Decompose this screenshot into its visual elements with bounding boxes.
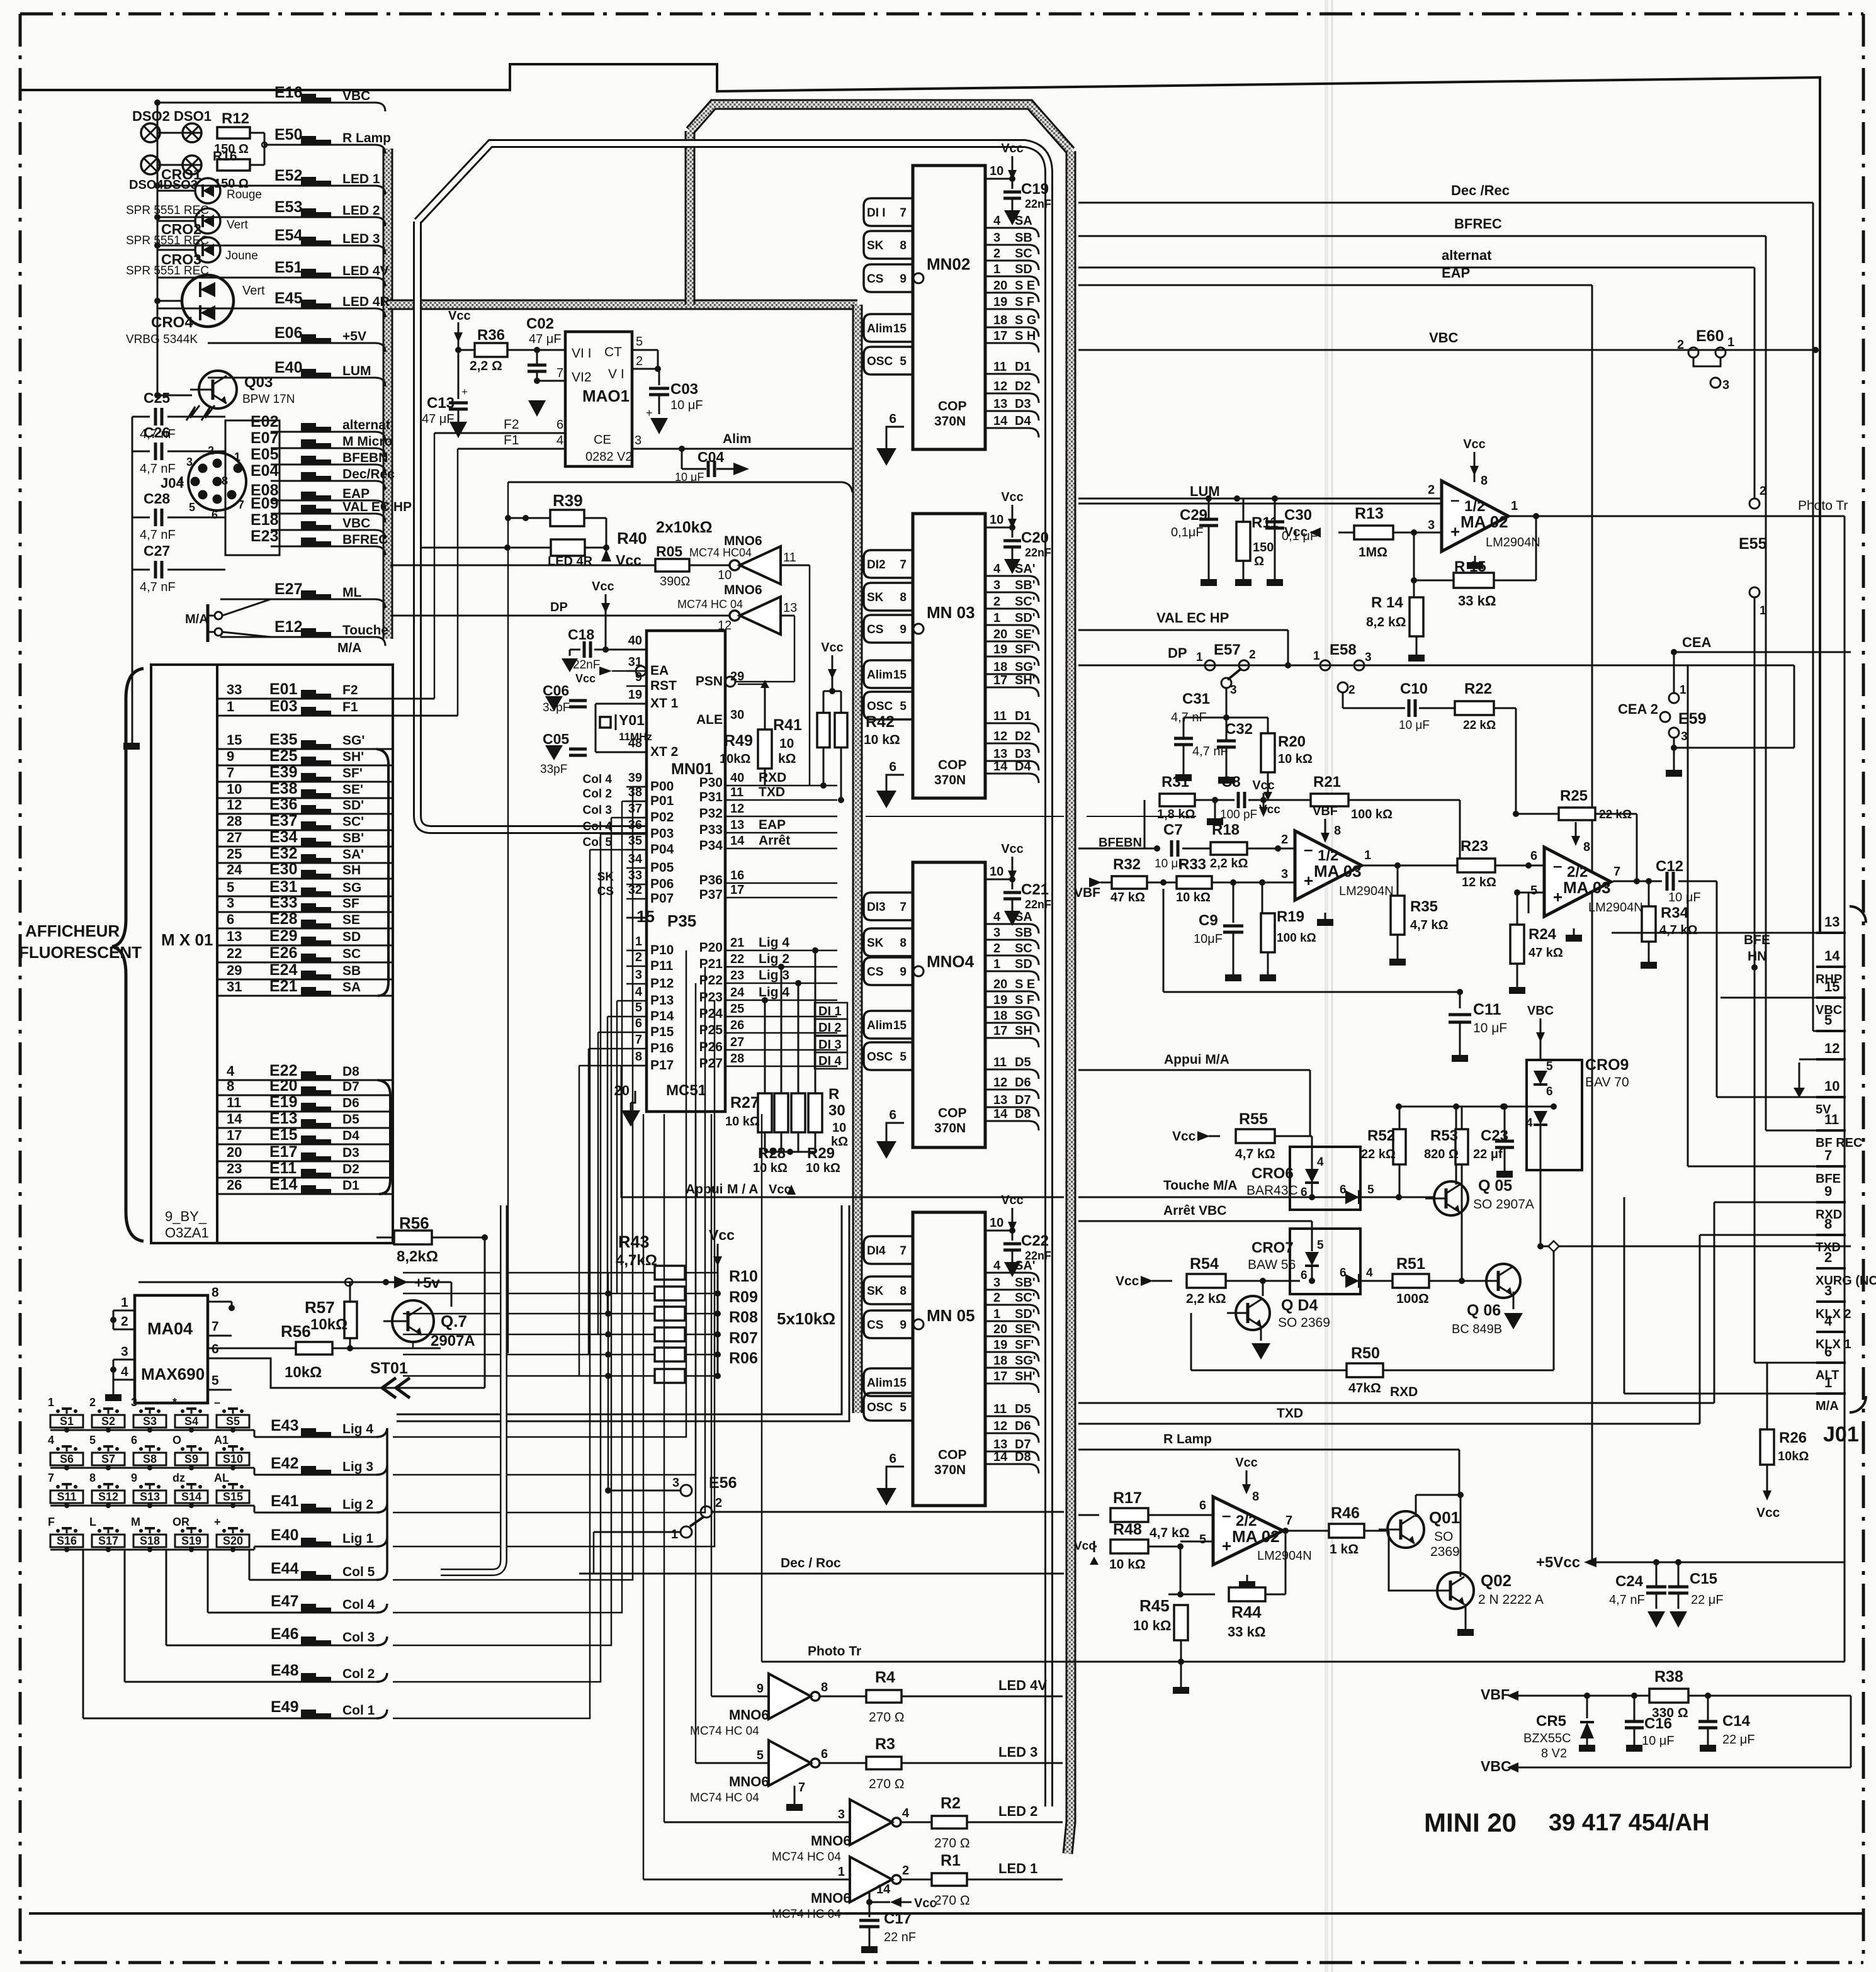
svg-text:12: 12 — [227, 797, 242, 813]
svg-text:SE: SE — [342, 913, 360, 927]
svg-text:Dec/Rec: Dec/Rec — [342, 467, 395, 482]
svg-text:CRO6: CRO6 — [1252, 1165, 1294, 1182]
svg-text:R49: R49 — [724, 732, 753, 750]
svg-text:1,8 kΩ: 1,8 kΩ — [1157, 808, 1195, 821]
svg-text:2369: 2369 — [1430, 1545, 1460, 1559]
svg-text:8: 8 — [900, 239, 907, 252]
svg-text:Lig 3: Lig 3 — [342, 1460, 373, 1474]
svg-text:7: 7 — [900, 901, 907, 914]
svg-text:R2: R2 — [941, 1795, 961, 1812]
svg-text:22 μf: 22 μf — [1473, 1147, 1503, 1161]
svg-text:SB': SB' — [1015, 1276, 1036, 1290]
svg-text:P20: P20 — [699, 940, 723, 955]
svg-text:S10: S10 — [223, 1453, 243, 1465]
svg-text:6: 6 — [1199, 1499, 1206, 1513]
svg-text:LED 1: LED 1 — [998, 1861, 1037, 1876]
svg-text:4: 4 — [993, 214, 1001, 228]
svg-text:R06: R06 — [729, 1349, 758, 1367]
svg-text:R35: R35 — [1410, 898, 1438, 915]
svg-text:4: 4 — [1824, 1313, 1833, 1329]
svg-text:1: 1 — [993, 1307, 1000, 1321]
svg-text:MINI 20: MINI 20 — [1424, 1808, 1517, 1837]
svg-text:Vcc: Vcc — [914, 1896, 937, 1910]
svg-text:+5V: +5V — [342, 329, 366, 344]
svg-text:E50: E50 — [274, 126, 302, 144]
svg-text:3: 3 — [993, 926, 1000, 940]
svg-text:Q.7: Q.7 — [441, 1312, 467, 1331]
svg-text:BC 849B: BC 849B — [1452, 1322, 1502, 1336]
svg-text:R36: R36 — [477, 327, 505, 344]
svg-text:R40: R40 — [617, 529, 647, 548]
svg-text:R27: R27 — [730, 1094, 759, 1112]
svg-text:C11: C11 — [1473, 1001, 1501, 1018]
svg-text:24: 24 — [730, 986, 745, 1000]
svg-text:9: 9 — [900, 966, 907, 979]
svg-text:2: 2 — [993, 247, 1000, 261]
svg-text:M/A: M/A — [1816, 1399, 1839, 1413]
svg-text:R13: R13 — [1355, 505, 1384, 522]
svg-text:22 kΩ: 22 kΩ — [1361, 1147, 1396, 1161]
svg-text:6: 6 — [635, 1017, 642, 1030]
svg-text:J01: J01 — [1823, 1423, 1859, 1446]
svg-text:E57: E57 — [1214, 641, 1241, 658]
svg-text:E24: E24 — [269, 961, 298, 979]
svg-text:BFREC: BFREC — [342, 532, 388, 547]
svg-text:2: 2 — [89, 1396, 96, 1409]
svg-text:3: 3 — [227, 895, 234, 911]
svg-text:BAW 56: BAW 56 — [1248, 1258, 1296, 1272]
svg-text:R Lamp: R Lamp — [1163, 1432, 1212, 1446]
svg-text:9: 9 — [131, 1472, 137, 1484]
svg-text:F1: F1 — [342, 700, 358, 714]
svg-text:37: 37 — [628, 802, 642, 816]
svg-text:8: 8 — [1481, 474, 1488, 488]
svg-text:R19: R19 — [1277, 908, 1304, 925]
svg-text:R 14: R 14 — [1371, 594, 1403, 611]
svg-text:SO: SO — [1434, 1530, 1453, 1544]
svg-text:E03: E03 — [269, 697, 297, 715]
svg-text:E14: E14 — [269, 1176, 298, 1193]
svg-text:P21: P21 — [699, 957, 723, 971]
svg-text:22: 22 — [730, 952, 744, 966]
svg-text:14: 14 — [876, 1883, 891, 1896]
svg-text:8 V2: 8 V2 — [1541, 1747, 1567, 1761]
svg-text:E01: E01 — [269, 680, 298, 698]
svg-text:7: 7 — [48, 1472, 54, 1484]
svg-text:CS: CS — [867, 1319, 883, 1332]
svg-text:MAO1: MAO1 — [582, 386, 630, 405]
svg-text:C30: C30 — [1284, 507, 1312, 524]
svg-text:M/A: M/A — [185, 612, 208, 626]
svg-text:8: 8 — [89, 1472, 96, 1484]
svg-text:E44: E44 — [271, 1560, 299, 1577]
svg-text:E21: E21 — [269, 978, 298, 995]
svg-text:10 μF: 10 μF — [1642, 1734, 1675, 1748]
svg-text:CRO9: CRO9 — [1585, 1056, 1629, 1074]
svg-text:12 kΩ: 12 kΩ — [1462, 876, 1496, 889]
svg-text:LED 1: LED 1 — [342, 172, 380, 186]
svg-text:10 μF: 10 μF — [670, 398, 703, 412]
svg-text:S9: S9 — [184, 1453, 198, 1465]
svg-text:Dec /Rec: Dec /Rec — [1451, 183, 1510, 198]
svg-text:R54: R54 — [1190, 1255, 1219, 1273]
svg-text:DP: DP — [1168, 645, 1187, 661]
svg-text:5: 5 — [1317, 1239, 1324, 1252]
svg-text:SK: SK — [867, 937, 884, 950]
svg-text:33: 33 — [227, 682, 242, 697]
svg-text:OSC: OSC — [867, 1051, 893, 1064]
svg-text:MNO6: MNO6 — [811, 1833, 851, 1849]
svg-text:C14: C14 — [1722, 1713, 1751, 1730]
svg-text:SG': SG' — [1015, 1354, 1036, 1368]
svg-text:VBC: VBC — [1527, 1004, 1554, 1018]
svg-text:SE': SE' — [342, 782, 363, 797]
svg-text:13: 13 — [227, 928, 242, 944]
svg-text:10: 10 — [990, 1216, 1003, 1230]
svg-text:P03: P03 — [650, 826, 674, 841]
svg-text:SC': SC' — [1015, 1291, 1036, 1305]
svg-text:18: 18 — [993, 660, 1007, 674]
svg-text:Col 4: Col 4 — [583, 773, 613, 786]
svg-text:27: 27 — [730, 1035, 744, 1049]
svg-text:S F: S F — [1015, 295, 1034, 309]
svg-text:18: 18 — [993, 1009, 1007, 1023]
svg-text:8,2 kΩ: 8,2 kΩ — [1366, 615, 1406, 629]
svg-text:2: 2 — [1249, 648, 1256, 662]
svg-text:+: + — [646, 407, 653, 419]
svg-text:12: 12 — [730, 802, 744, 816]
svg-text:15: 15 — [1824, 979, 1839, 994]
svg-text:DP: DP — [550, 600, 568, 614]
svg-text:4: 4 — [993, 1259, 1001, 1273]
svg-text:Vcc: Vcc — [1074, 1540, 1095, 1553]
svg-text:P37: P37 — [699, 887, 723, 902]
svg-text:Lig 4: Lig 4 — [342, 1422, 373, 1436]
svg-text:12: 12 — [993, 380, 1007, 393]
svg-text:8: 8 — [212, 1285, 219, 1300]
svg-text:2,2 Ω: 2,2 Ω — [470, 359, 502, 373]
svg-text:270 Ω: 270 Ω — [934, 1836, 970, 1851]
svg-text:SG': SG' — [1015, 660, 1036, 674]
svg-text:14: 14 — [227, 1111, 242, 1127]
svg-text:Photo Tr: Photo Tr — [1798, 499, 1848, 513]
svg-text:S13: S13 — [140, 1490, 160, 1503]
svg-text:D3: D3 — [342, 1146, 359, 1160]
svg-text:0282 V2: 0282 V2 — [585, 450, 633, 464]
svg-text:8: 8 — [900, 591, 907, 604]
svg-text:9: 9 — [900, 273, 907, 286]
svg-text:BAV 70: BAV 70 — [1585, 1075, 1629, 1090]
svg-text:7: 7 — [212, 1319, 219, 1334]
svg-text:5: 5 — [1824, 1012, 1832, 1028]
svg-text:R20: R20 — [1278, 733, 1306, 750]
svg-text:5: 5 — [227, 879, 234, 895]
svg-text:LUM: LUM — [1190, 483, 1220, 499]
svg-text:C05: C05 — [543, 731, 569, 747]
svg-text:9: 9 — [900, 623, 907, 636]
svg-text:R26: R26 — [1779, 1429, 1807, 1446]
svg-text:E06: E06 — [274, 324, 302, 342]
svg-text:20: 20 — [993, 279, 1007, 293]
svg-text:SC': SC' — [1015, 595, 1036, 609]
svg-text:27: 27 — [227, 830, 242, 845]
svg-text:3: 3 — [838, 1808, 845, 1822]
svg-text:22nF: 22nF — [1025, 898, 1051, 911]
svg-text:17: 17 — [993, 673, 1007, 687]
svg-text:4: 4 — [1317, 1156, 1324, 1169]
svg-text:Col 4: Col 4 — [583, 820, 613, 833]
svg-text:MC74 HC 04: MC74 HC 04 — [772, 1908, 841, 1921]
svg-text:MN 05: MN 05 — [927, 1306, 975, 1325]
svg-text:3: 3 — [1681, 730, 1688, 743]
svg-text:R16: R16 — [213, 149, 237, 164]
svg-text:S3: S3 — [143, 1415, 157, 1428]
svg-text:7: 7 — [900, 1244, 907, 1258]
svg-text:Vert: Vert — [242, 284, 265, 298]
svg-text:SD': SD' — [1015, 611, 1036, 625]
svg-text:HN: HN — [1748, 949, 1766, 964]
svg-text:E45: E45 — [274, 290, 303, 307]
svg-text:S E: S E — [1015, 978, 1035, 991]
svg-text:5: 5 — [900, 1051, 907, 1064]
svg-text:LM2904N: LM2904N — [1486, 536, 1540, 549]
svg-text:6: 6 — [1824, 1344, 1832, 1360]
svg-text:P25: P25 — [699, 1023, 723, 1037]
svg-text:SF': SF' — [1015, 1338, 1034, 1352]
svg-text:Col 1: Col 1 — [342, 1703, 375, 1718]
svg-text:8,2kΩ: 8,2kΩ — [397, 1248, 438, 1265]
svg-text:D1: D1 — [1015, 360, 1031, 374]
svg-text:1: 1 — [993, 957, 1000, 971]
svg-text:1: 1 — [234, 451, 240, 463]
svg-text:C26: C26 — [144, 424, 170, 441]
svg-text:370N: 370N — [934, 1463, 966, 1477]
svg-text:–: – — [1450, 490, 1459, 509]
svg-text:R1: R1 — [941, 1852, 961, 1869]
svg-text:SA': SA' — [1015, 562, 1036, 576]
svg-text:MNO6: MNO6 — [729, 1774, 769, 1789]
svg-text:VBC: VBC — [342, 516, 370, 531]
svg-text:1: 1 — [121, 1295, 128, 1310]
svg-text:4,7 nF: 4,7 nF — [1171, 711, 1207, 724]
svg-text:31: 31 — [628, 655, 642, 669]
svg-text:LED 4R: LED 4R — [548, 555, 593, 568]
svg-text:–: – — [214, 1396, 220, 1409]
svg-text:SA: SA — [1015, 910, 1032, 924]
svg-text:J04: J04 — [161, 475, 184, 491]
svg-text:10: 10 — [718, 568, 732, 582]
svg-text:COP: COP — [938, 399, 967, 414]
svg-text:R07: R07 — [729, 1329, 758, 1347]
svg-text:33pF: 33pF — [540, 763, 567, 776]
svg-text:S G: S G — [1015, 313, 1036, 327]
svg-text:14: 14 — [993, 414, 1008, 428]
svg-text:R4: R4 — [875, 1669, 895, 1686]
svg-text:100 pF: 100 pF — [1220, 808, 1257, 821]
svg-text:E37: E37 — [269, 812, 297, 830]
svg-text:M/A: M/A — [337, 641, 362, 655]
svg-text:3: 3 — [635, 968, 642, 982]
svg-text:R39: R39 — [553, 491, 583, 510]
svg-text:15: 15 — [893, 1019, 907, 1032]
svg-text:S7: S7 — [101, 1453, 115, 1465]
svg-text:5: 5 — [189, 501, 195, 514]
svg-text:15: 15 — [893, 668, 907, 682]
svg-text:19: 19 — [993, 643, 1007, 656]
svg-text:29: 29 — [227, 962, 242, 978]
svg-text:20: 20 — [993, 628, 1007, 641]
svg-text:Q02: Q02 — [1481, 1571, 1512, 1590]
svg-text:F1: F1 — [504, 433, 519, 448]
svg-text:4: 4 — [1526, 1117, 1533, 1130]
svg-text:Arrêt VBC: Arrêt VBC — [1163, 1203, 1226, 1218]
svg-text:P31: P31 — [699, 790, 723, 804]
svg-text:S4: S4 — [184, 1415, 198, 1428]
svg-text:P26: P26 — [699, 1040, 723, 1054]
svg-text:S H: S H — [1015, 329, 1036, 343]
svg-text:20: 20 — [993, 978, 1007, 991]
svg-text:VRBG 5344K: VRBG 5344K — [126, 333, 198, 346]
svg-text:5x10kΩ: 5x10kΩ — [777, 1309, 835, 1328]
svg-text:SE': SE' — [1015, 1322, 1034, 1336]
svg-text:390Ω: 390Ω — [660, 575, 690, 589]
svg-text:Vcc: Vcc — [1001, 842, 1024, 856]
svg-text:21: 21 — [730, 936, 744, 950]
svg-text:MA 02: MA 02 — [1232, 1527, 1280, 1546]
svg-text:18: 18 — [993, 1354, 1007, 1368]
svg-text:47 kΩ: 47 kΩ — [1110, 891, 1145, 904]
svg-text:Vcc: Vcc — [1001, 142, 1024, 155]
svg-text:370N: 370N — [934, 414, 966, 429]
svg-text:SG: SG — [1015, 1009, 1033, 1023]
svg-text:10 kΩ: 10 kΩ — [1278, 752, 1313, 766]
svg-text:R08: R08 — [729, 1309, 758, 1326]
svg-text:9: 9 — [1824, 1183, 1832, 1199]
svg-text:15: 15 — [636, 907, 655, 926]
svg-text:11: 11 — [993, 1402, 1007, 1416]
svg-text:3: 3 — [121, 1344, 128, 1359]
svg-text:9_BY_: 9_BY_ — [165, 1209, 207, 1224]
svg-text:E43: E43 — [271, 1417, 298, 1434]
svg-text:R55: R55 — [1239, 1110, 1268, 1128]
svg-text:3: 3 — [1281, 867, 1288, 881]
svg-text:47kΩ: 47kΩ — [1348, 1381, 1381, 1395]
svg-text:R45: R45 — [1139, 1596, 1170, 1615]
svg-text:20: 20 — [227, 1144, 242, 1160]
svg-text:SH: SH — [1015, 1024, 1032, 1038]
svg-text:13: 13 — [993, 1093, 1007, 1107]
svg-text:E04: E04 — [251, 462, 279, 480]
svg-text:4,7 kΩ: 4,7 kΩ — [1659, 923, 1698, 937]
svg-text:C19: C19 — [1021, 181, 1049, 198]
svg-text:22: 22 — [227, 945, 242, 961]
svg-text:SH': SH' — [1015, 1370, 1036, 1383]
svg-text:11: 11 — [730, 786, 743, 799]
svg-text:SC: SC — [1015, 247, 1032, 261]
svg-text:SD: SD — [1015, 262, 1032, 276]
svg-text:8: 8 — [227, 1078, 234, 1094]
svg-text:P10: P10 — [650, 943, 674, 957]
svg-text:12: 12 — [1824, 1040, 1839, 1056]
svg-text:1: 1 — [1364, 848, 1371, 862]
svg-text:VBC: VBC — [1429, 330, 1459, 346]
svg-text:17: 17 — [993, 329, 1007, 343]
svg-text:E30: E30 — [269, 860, 297, 878]
svg-text:D2: D2 — [1015, 730, 1031, 743]
svg-text:P32: P32 — [699, 806, 723, 821]
svg-text:TXD: TXD — [1277, 1406, 1303, 1421]
svg-text:Q 06: Q 06 — [1467, 1302, 1501, 1319]
svg-text:R09: R09 — [729, 1288, 758, 1306]
svg-text:C24: C24 — [1615, 1573, 1644, 1590]
svg-text:P11: P11 — [650, 959, 674, 973]
svg-text:MC74 HC 04: MC74 HC 04 — [772, 1851, 841, 1864]
svg-text:Q03: Q03 — [244, 374, 273, 391]
svg-text:13: 13 — [993, 747, 1007, 761]
svg-text:D1: D1 — [1015, 709, 1031, 723]
svg-text:SG': SG' — [342, 733, 364, 748]
svg-text:CS: CS — [867, 966, 883, 979]
svg-text:MNO6: MNO6 — [724, 534, 762, 548]
svg-text:RST: RST — [650, 679, 677, 693]
svg-text:6: 6 — [1340, 1266, 1347, 1280]
svg-text:0,1 μF: 0,1 μF — [1282, 529, 1318, 543]
svg-text:D7: D7 — [342, 1079, 359, 1094]
svg-text:Vcc: Vcc — [1235, 1456, 1258, 1470]
svg-text:2: 2 — [1760, 485, 1766, 498]
svg-text:E25: E25 — [269, 747, 298, 765]
svg-text:S18: S18 — [140, 1535, 160, 1547]
svg-text:C28: C28 — [144, 490, 170, 507]
svg-text:1: 1 — [1680, 684, 1687, 697]
svg-text:R38: R38 — [1654, 1668, 1683, 1686]
svg-text:D4: D4 — [1015, 760, 1031, 774]
svg-text:R56: R56 — [281, 1322, 311, 1341]
svg-text:22 nF: 22 nF — [884, 1930, 916, 1944]
svg-text:Col 3: Col 3 — [583, 804, 612, 817]
svg-text:28: 28 — [730, 1052, 744, 1066]
svg-text:AFFICHEUR: AFFICHEUR — [25, 921, 120, 940]
svg-text:19: 19 — [993, 295, 1007, 309]
svg-text:E39: E39 — [269, 763, 297, 781]
svg-text:SH: SH — [342, 863, 361, 877]
svg-text:Q01: Q01 — [1429, 1508, 1460, 1527]
svg-text:18: 18 — [993, 313, 1007, 327]
svg-text:LED 3: LED 3 — [998, 1744, 1037, 1760]
svg-text:2: 2 — [635, 950, 642, 964]
svg-text:Col 5: Col 5 — [583, 836, 613, 849]
svg-text:8: 8 — [900, 1285, 907, 1298]
svg-text:R23: R23 — [1461, 838, 1488, 855]
svg-text:CE: CE — [594, 433, 611, 447]
svg-text:3: 3 — [1428, 519, 1435, 532]
svg-text:Dec / Roc: Dec / Roc — [781, 1556, 841, 1570]
svg-text:Alim: Alim — [867, 668, 893, 682]
svg-text:KLX 2: KLX 2 — [1816, 1307, 1851, 1321]
svg-text:2x10kΩ: 2x10kΩ — [656, 519, 713, 536]
svg-text:1: 1 — [1727, 335, 1734, 349]
svg-text:22nF: 22nF — [573, 658, 600, 672]
svg-text:25: 25 — [730, 1002, 744, 1016]
svg-text:270 Ω: 270 Ω — [869, 1710, 905, 1725]
svg-text:19: 19 — [628, 688, 642, 702]
svg-text:Vcc: Vcc — [821, 641, 844, 655]
svg-text:S1: S1 — [60, 1415, 74, 1428]
svg-text:LED 4V: LED 4V — [342, 264, 389, 278]
svg-text:100 kΩ: 100 kΩ — [1351, 808, 1393, 821]
svg-text:P05: P05 — [650, 860, 674, 875]
svg-text:Col 2: Col 2 — [583, 787, 612, 801]
